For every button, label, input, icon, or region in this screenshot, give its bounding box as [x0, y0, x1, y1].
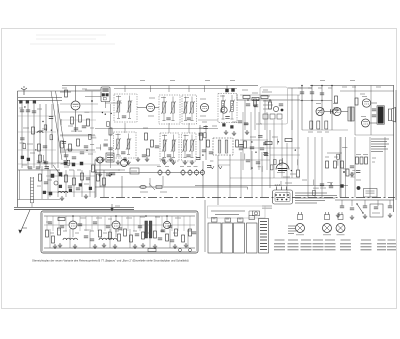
value table 1: [274, 240, 285, 250]
IF transformer T7 trimmer arrows: [182, 139, 194, 152]
voltage column 4: [247, 223, 258, 253]
label: [149, 97, 155, 99]
svg-text:Übersichtsplan der neuen Varia: Übersichtsplan der neuen Variante des Re…: [32, 258, 189, 262]
coil core L2: [26, 101, 29, 104]
wire vertical: [27, 104, 29, 168]
wire: [264, 100, 266, 130]
wire stub: [337, 160, 339, 166]
coil: [128, 101, 131, 112]
osc part c: [103, 98, 106, 100]
wire vertical: [314, 137, 316, 198]
ground: [245, 130, 249, 135]
junction: [331, 85, 333, 87]
wire vertical: [229, 185, 231, 198]
ground: [95, 157, 99, 162]
shield box oscillator: [101, 87, 110, 102]
capacitor C21: [310, 121, 313, 129]
wire drop amp: [169, 229, 171, 248]
switch arm diagonal: [53, 165, 62, 177]
label: [103, 232, 107, 234]
wire stub: [261, 166, 263, 172]
capacitor: [356, 171, 360, 173]
label: [362, 96, 367, 98]
resistor R5: [71, 117, 74, 124]
wire stub: [46, 125, 48, 131]
capacitor: [118, 228, 122, 230]
coil core L5: [21, 156, 24, 159]
label: [302, 179, 307, 181]
wire vertical: [21, 104, 23, 168]
wire: [222, 95, 224, 101]
ground: [136, 157, 140, 162]
capacitor: [260, 148, 264, 150]
label: [360, 93, 365, 95]
label: [140, 216, 145, 218]
resistor: [107, 122, 110, 127]
capacitor: [62, 141, 66, 143]
wire mesh: [18, 163, 56, 165]
capacitor: [279, 104, 283, 106]
wire vertical: [339, 137, 341, 198]
socket a: [263, 114, 268, 119]
wire stub: [313, 180, 315, 186]
label: [226, 218, 229, 220]
label: [323, 234, 331, 236]
capacitor: [203, 127, 207, 129]
potentiometer P3 wiper: [338, 225, 344, 231]
wire: [103, 170, 105, 197]
wire: [129, 112, 131, 118]
label: [285, 182, 292, 184]
resistor R52: [39, 174, 42, 181]
wire: [137, 107, 147, 109]
IF transformer T1: [114, 94, 137, 122]
IF transformer T6 bottom parts: [163, 157, 175, 159]
wire vertical: [345, 137, 347, 198]
AF transformer box: [213, 138, 233, 155]
wire: [129, 96, 131, 102]
capacitor: [103, 144, 107, 146]
arrow b: [218, 165, 222, 169]
wire: [19, 170, 21, 200]
label: [298, 87, 302, 89]
switch lever: [149, 184, 155, 191]
capacitor: [106, 174, 110, 176]
IF transformer T4 bottom parts: [222, 118, 234, 120]
capacitor: [350, 208, 354, 210]
label: [272, 136, 278, 138]
capacitor C23: [325, 121, 328, 129]
resistor R49: [365, 157, 368, 164]
wire: [173, 135, 175, 141]
wire mesh: [60, 119, 96, 121]
resistor: [142, 232, 145, 239]
connector pin: [275, 194, 277, 196]
IF transformer T5: [114, 132, 137, 158]
capacitor: [350, 166, 354, 168]
meter box 2: [225, 218, 231, 222]
label: [263, 89, 268, 91]
value table 8: [377, 240, 386, 250]
label: [65, 154, 68, 156]
IF transformer T7: [182, 133, 197, 161]
IF transformer T1 bottom parts: [117, 118, 131, 120]
coil: [231, 101, 234, 112]
resistor: [109, 232, 112, 239]
coil core L6: [27, 158, 30, 161]
resistor R32: [58, 218, 65, 221]
label: [90, 127, 94, 129]
wire: [46, 191, 95, 193]
label 3m: [180, 166, 184, 168]
wire drop in amp: [46, 216, 48, 231]
wire drop in amp: [104, 216, 106, 231]
label: [250, 136, 256, 138]
junction: [72, 215, 74, 217]
label: [23, 127, 29, 129]
label: [351, 176, 355, 178]
wire drop in amp: [183, 216, 185, 231]
capacitor: [246, 104, 250, 106]
capacitor: [135, 234, 139, 236]
resistor R14: [200, 133, 203, 140]
ground: [363, 214, 367, 219]
junction: [202, 154, 203, 155]
coil: [117, 101, 120, 112]
wire: [355, 134, 394, 136]
value table 5: [325, 240, 336, 250]
wire: [72, 229, 74, 237]
wire: [302, 129, 348, 131]
label: [71, 130, 77, 132]
dark part: [43, 191, 46, 194]
wire left boundary: [17, 91, 19, 207]
resistor R21: [355, 98, 358, 105]
label: [161, 97, 166, 99]
label: [116, 155, 121, 157]
IF transformer T5 trimmer arrows: [115, 138, 131, 150]
value table 7: [361, 240, 372, 250]
ground: [161, 157, 165, 162]
label: [372, 212, 380, 214]
potentiometer P1 trimmer pins: [299, 212, 302, 215]
label: [77, 169, 81, 171]
resistor R3: [39, 155, 42, 162]
wire vertical: [291, 120, 293, 178]
wire: [222, 112, 224, 119]
potentiometer volume: [273, 106, 278, 111]
value table 9: [387, 240, 396, 250]
junction: [311, 100, 312, 101]
wire drop in amp: [52, 216, 54, 231]
wire drop in amp: [65, 216, 67, 231]
wire: [370, 122, 378, 124]
capacitor: [239, 148, 243, 150]
tube V10: [163, 221, 170, 228]
speaker: [388, 108, 395, 123]
label above bus: [140, 80, 145, 82]
capacitor: [310, 92, 314, 94]
capacitor: [45, 167, 49, 169]
coil group B: [99, 238, 117, 240]
wire right boundary 2: [395, 90, 397, 200]
wire vertical: [110, 104, 112, 168]
label: [351, 172, 356, 174]
value table 4: [313, 240, 324, 250]
junction: [255, 152, 256, 153]
connector pin: [287, 194, 289, 196]
capacitor: [142, 155, 146, 157]
wire: [198, 119, 218, 121]
IF transformer T3: [182, 95, 197, 124]
wire vertical tail: [57, 170, 59, 197]
label: [61, 163, 65, 165]
wire vertical: [240, 185, 242, 198]
capacitor: [244, 123, 248, 125]
wire: [162, 176, 164, 186]
capacitor: [374, 207, 378, 209]
capacitor: [186, 155, 190, 157]
wire: [171, 224, 195, 226]
capacitor: [388, 206, 392, 208]
resistor R8: [61, 141, 64, 148]
label: [200, 98, 206, 100]
wire: [173, 151, 175, 157]
wire: [60, 134, 95, 136]
label: [96, 217, 102, 219]
wire: [72, 216, 74, 221]
capacitor: [111, 173, 115, 175]
ground: [232, 131, 236, 136]
label: [210, 160, 213, 162]
label: [82, 88, 87, 90]
capacitor: [329, 186, 333, 188]
potentiometer P3: [336, 224, 345, 233]
wire bus lower left 2: [14, 208, 134, 210]
capacitor: [49, 117, 53, 119]
wire: [115, 216, 117, 221]
wire drop in amp: [177, 216, 179, 231]
ground: [350, 172, 354, 177]
wire: [269, 130, 271, 188]
osc coil can: [97, 157, 103, 163]
tube V1 mixer: [71, 101, 80, 110]
wire riser: [226, 86, 228, 93]
resistor R41: [73, 178, 76, 185]
label: [133, 230, 137, 232]
lamp dark: [357, 186, 360, 189]
wire: [60, 149, 95, 151]
resistor R26: [236, 140, 239, 147]
coil: [222, 101, 225, 112]
wire vertical: [251, 185, 253, 198]
resistor R40: [65, 175, 68, 182]
resistor: [58, 228, 61, 235]
label: [75, 232, 79, 234]
fuse: [140, 185, 146, 188]
junction: [24, 106, 25, 107]
capacitor: [82, 126, 86, 128]
label: [162, 135, 167, 137]
label: [90, 144, 94, 146]
ground: [171, 160, 175, 165]
ground: [84, 194, 88, 199]
junction: [111, 113, 112, 114]
label: [239, 218, 242, 220]
capacitor: [64, 155, 68, 157]
wire: [95, 164, 160, 166]
wire drop: [351, 200, 353, 206]
label: [19, 107, 23, 109]
capacitor: [90, 239, 94, 241]
wire vertical: [261, 185, 263, 198]
label: [342, 147, 347, 149]
label: [296, 234, 304, 236]
label: [84, 183, 89, 185]
label: [50, 232, 54, 234]
table header text: [211, 211, 245, 215]
resistor R20: [335, 96, 338, 103]
resistor R46: [109, 128, 112, 135]
connector pins top: [277, 187, 287, 191]
label: [313, 187, 319, 189]
wire detector bus: [237, 99, 300, 101]
capacitor: [26, 110, 30, 112]
wire vertical: [281, 120, 283, 178]
label: [67, 148, 73, 150]
note text block: [371, 139, 389, 152]
wire stub: [60, 119, 62, 125]
wire: [324, 111, 333, 113]
wire riser: [124, 86, 126, 93]
meter circle box: [253, 211, 260, 216]
capacitor: [167, 155, 171, 157]
wire link: [204, 200, 206, 252]
wire vertical: [41, 166, 43, 199]
ground: [108, 172, 112, 177]
wire: [117, 149, 119, 154]
resistor R29: [285, 139, 292, 142]
capacitor: [84, 146, 88, 148]
dial rung: [31, 196, 34, 198]
ground: [98, 172, 102, 177]
wire: [327, 152, 342, 154]
wire: [95, 170, 97, 197]
wire riser: [311, 86, 313, 131]
connector plug: [273, 190, 293, 204]
wire: [60, 103, 98, 105]
wire: [229, 155, 231, 185]
wire drop in amp: [58, 216, 60, 231]
dark part: [341, 185, 344, 188]
wire: [164, 135, 166, 141]
fuse bottom: [148, 249, 156, 252]
resistor R4: [65, 90, 68, 97]
label: [232, 121, 237, 123]
resistor R24: [326, 161, 329, 168]
rectifier box: [130, 168, 139, 174]
capacitor: [138, 226, 142, 228]
wire: [85, 96, 101, 98]
resistor: [337, 154, 340, 159]
wire: [188, 123, 190, 133]
wire mains right: [335, 199, 394, 201]
dial rung: [31, 177, 34, 179]
label: [283, 176, 290, 178]
wire drop in amp: [155, 216, 157, 231]
osc part a: [102, 94, 105, 97]
capacitor: [225, 117, 229, 119]
wire right boundary: [393, 86, 395, 213]
wire: [191, 97, 193, 103]
tube V7: [362, 119, 370, 127]
wire drop in amp: [161, 216, 163, 231]
capacitor C22: [317, 121, 320, 129]
wire bottom boundary (dash-dot): [100, 197, 395, 199]
wire drop amp: [129, 229, 131, 248]
label: [200, 115, 206, 117]
label above bus: [170, 80, 175, 82]
wire stub: [99, 144, 101, 150]
ground in amp: [133, 244, 137, 249]
wire: [249, 210, 253, 212]
dark part: [223, 124, 226, 127]
wire drop in amp: [189, 216, 191, 231]
wire: [240, 147, 300, 149]
wire bus mid: [195, 184, 348, 186]
connector pin: [281, 199, 283, 201]
tube V9: [112, 221, 120, 229]
connector pin: [277, 199, 279, 201]
label: [116, 96, 121, 98]
label: [376, 86, 381, 88]
faint header text: [30, 35, 115, 44]
wire vertical: [340, 137, 342, 198]
resistor R11: [145, 133, 148, 140]
connector pin: [283, 194, 285, 196]
junction: [291, 170, 292, 171]
wire: [185, 97, 187, 103]
resistor R30: [46, 230, 49, 237]
wire: [18, 100, 62, 102]
label: [372, 157, 376, 159]
wire: [240, 152, 242, 185]
osc coil circle: [221, 107, 227, 113]
capacitor: [187, 118, 191, 120]
label: [104, 139, 108, 141]
core: [64, 162, 67, 165]
wire bottom bus of amp: [44, 247, 195, 249]
coil: [163, 140, 166, 151]
ground in amp: [73, 244, 77, 249]
capacitor: [209, 152, 213, 154]
dial rung: [31, 202, 34, 204]
wire: [286, 143, 288, 185]
junction: [295, 149, 296, 150]
label: [155, 216, 160, 218]
wire: [205, 125, 207, 160]
wire bus lower left: [14, 206, 134, 208]
wire drop in amp: [79, 216, 81, 231]
label: [88, 153, 93, 155]
tube V4 AF: [316, 108, 324, 116]
label: [263, 108, 271, 110]
resistor R43: [97, 174, 100, 181]
resistor R17: [252, 98, 259, 101]
label: [356, 154, 361, 156]
resistor: [204, 133, 207, 138]
value table 6: [340, 240, 351, 250]
